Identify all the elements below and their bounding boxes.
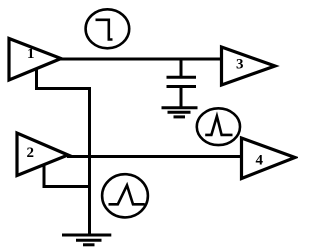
svg-text:3: 3: [236, 57, 244, 73]
wire net1 (buffer 1 output to buffer 3 input): [60, 58, 222, 61]
buffer 3: [222, 47, 276, 85]
waveform W1 trace: [96, 20, 113, 40]
svg-text:4: 4: [256, 153, 264, 169]
wire from buffer 2 lower edge to bus: [44, 165, 90, 187]
wire vertical bus to ground: [88, 87, 91, 234]
svg-text:1: 1: [27, 46, 35, 62]
buffer 2: [17, 133, 68, 176]
waveform W3 trace: [109, 185, 145, 204]
wire net2 (buffer 2 output to buffer 4 input): [67, 155, 242, 158]
capacitor C1 top plate: [167, 76, 197, 79]
waveform source icon W3 (pulse): [102, 174, 148, 217]
buffer 4: [242, 138, 296, 179]
waveform source icon W1 (falling edge): [86, 9, 130, 48]
wire from buffer 1 lower edge to bus: [37, 69, 90, 89]
ground G2 (bottom of bus): [62, 235, 111, 245]
capacitor C1 stub from net1: [180, 59, 183, 77]
buffer 1: [9, 39, 61, 81]
capacitor C1 lower stub: [180, 87, 183, 107]
waveform W2 trace: [205, 116, 232, 135]
capacitor C1 bottom plate: [167, 85, 197, 88]
waveform source icon W2 (pulse): [197, 108, 240, 145]
ground G1 (below capacitor): [162, 108, 198, 117]
svg-text:2: 2: [27, 145, 35, 161]
